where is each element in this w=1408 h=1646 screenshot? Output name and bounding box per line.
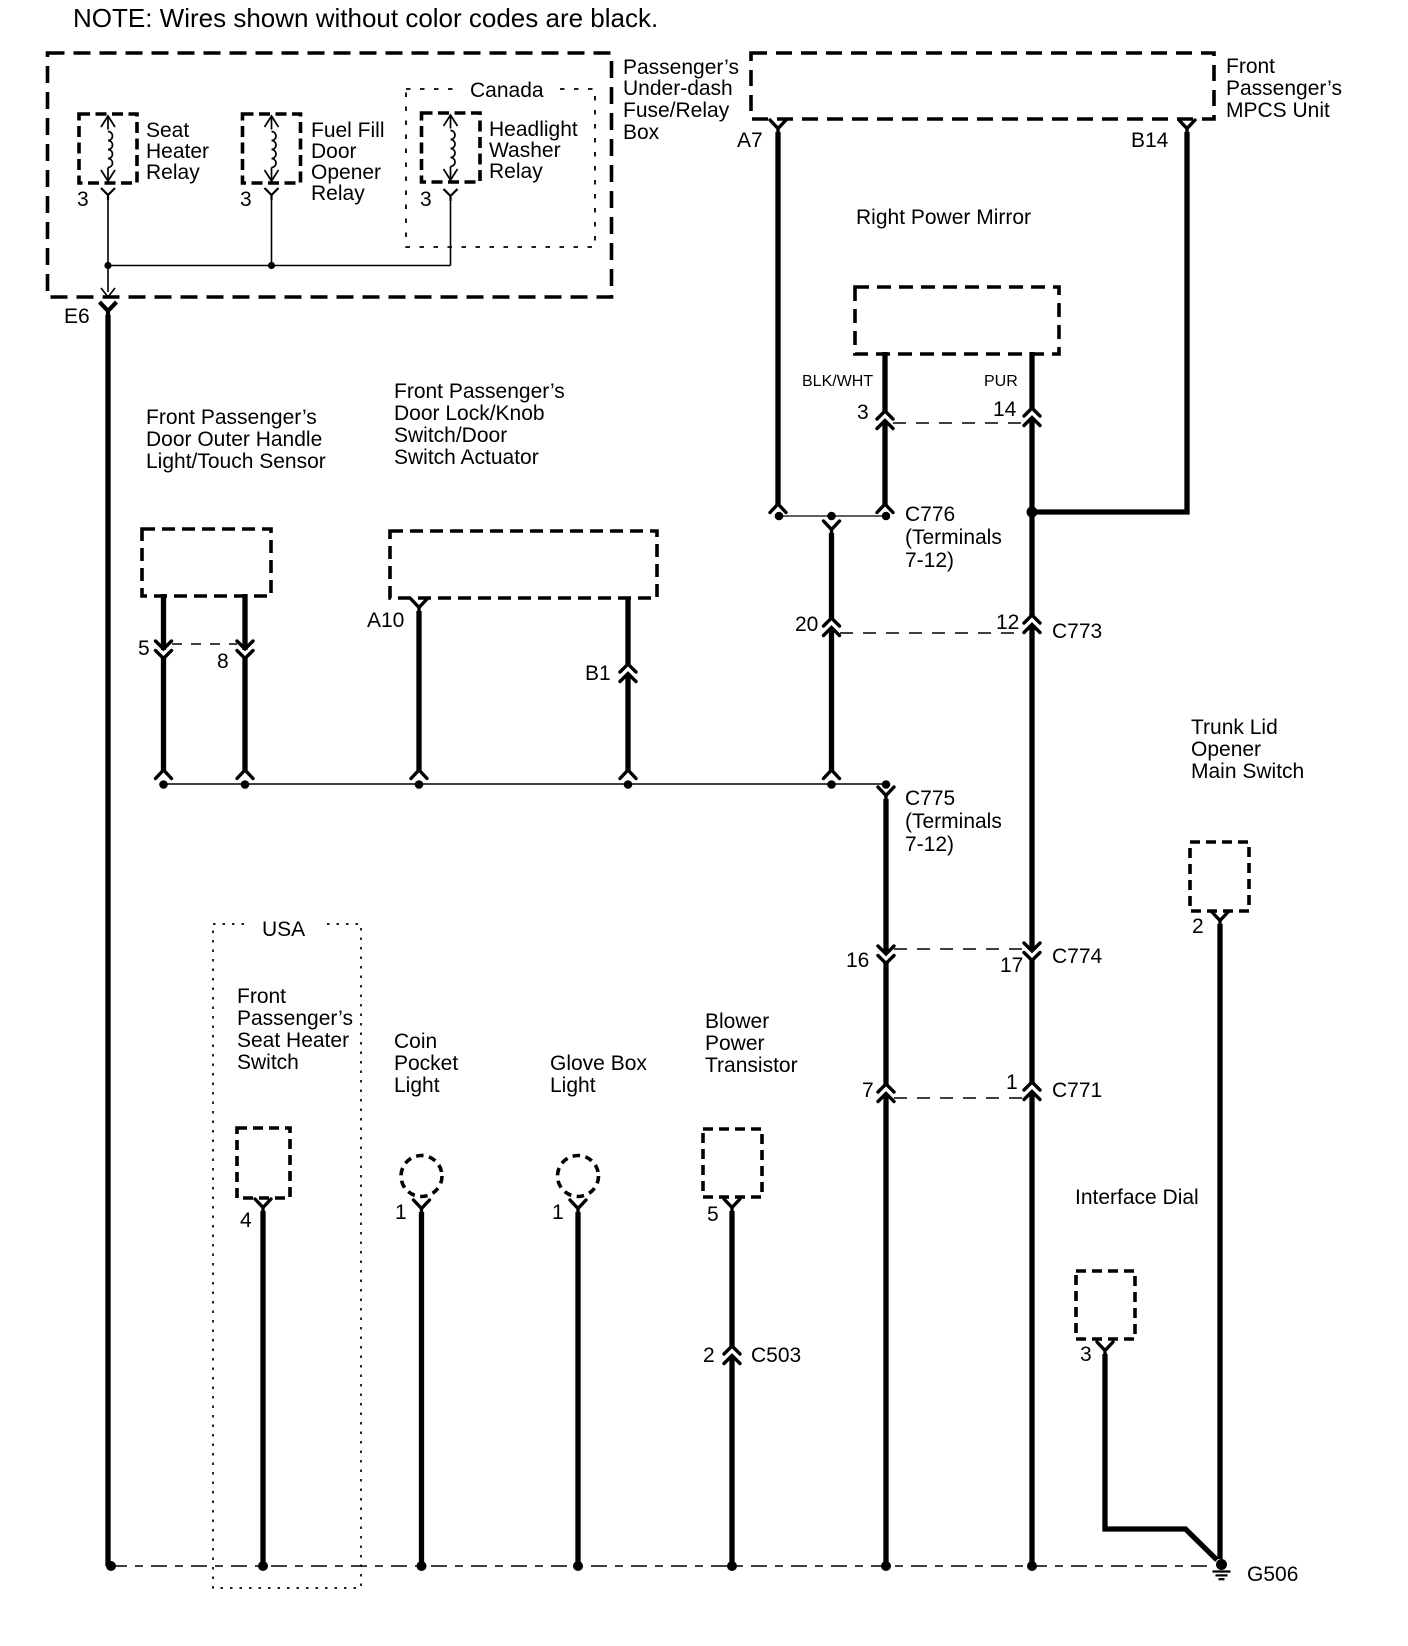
passenger's under-dash fuse/relay box <box>48 53 612 297</box>
svg-text:Opener: Opener <box>1191 738 1261 761</box>
svg-text:Passenger’s: Passenger’s <box>623 56 739 79</box>
junction coin pocket light wire <box>417 1561 427 1571</box>
junction C775 wire <box>881 1561 891 1571</box>
svg-text:Main Switch: Main Switch <box>1191 760 1304 783</box>
svg-text:1: 1 <box>1006 1071 1018 1094</box>
wire C773 pin20 down to C775 joint <box>829 628 834 772</box>
svg-text:Light/Touch Sensor: Light/Touch Sensor <box>146 450 326 473</box>
wire trunk switch to ground <box>1217 924 1222 1559</box>
ground bus wire <box>111 1565 1209 1567</box>
svg-text:Door Lock/Knob: Door Lock/Knob <box>394 402 545 425</box>
sensor left stub wire <box>161 594 166 650</box>
svg-text:Passenger’s: Passenger’s <box>237 1007 353 1030</box>
svg-text:Right Power Mirror: Right Power Mirror <box>856 206 1031 229</box>
front passenger's MPCS unit <box>751 53 1214 119</box>
sensor right stub wire <box>242 594 247 650</box>
svg-text:Pocket: Pocket <box>394 1052 458 1075</box>
dashed tie line C773 <box>840 632 1023 634</box>
wire from relay K2 pin 3 <box>271 199 273 266</box>
svg-text:Fuel Fill: Fuel Fill <box>311 119 385 142</box>
svg-text:C775: C775 <box>905 787 955 810</box>
svg-text:G506: G506 <box>1247 1563 1298 1586</box>
junction at K2 wire <box>268 262 275 269</box>
svg-text:NOTE: Wires shown without colo: NOTE: Wires shown without color codes ar… <box>73 3 658 33</box>
svg-text:3: 3 <box>857 401 869 424</box>
svg-text:Door: Door <box>311 140 357 163</box>
svg-text:Relay: Relay <box>311 182 365 205</box>
C776 joint line <box>779 515 886 517</box>
svg-text:Interface Dial: Interface Dial <box>1075 1186 1199 1209</box>
PUR wire C773 to C774 <box>1029 625 1034 952</box>
wire E6 down to ground bus <box>105 315 110 1566</box>
svg-text:Switch: Switch <box>237 1051 299 1074</box>
svg-text:A10: A10 <box>367 609 404 632</box>
svg-text:PUR: PUR <box>984 373 1018 390</box>
svg-text:Trunk Lid: Trunk Lid <box>1191 716 1278 739</box>
svg-text:Blower: Blower <box>705 1010 769 1033</box>
svg-text:Canada: Canada <box>470 79 544 102</box>
svg-text:1: 1 <box>552 1201 564 1224</box>
wire pin 8 to bus <box>242 658 247 771</box>
svg-text:3: 3 <box>1080 1343 1092 1366</box>
dashed tie line between pins 5 and 8 <box>172 643 237 645</box>
fuel fill door opener relay K2 <box>243 114 301 183</box>
svg-text:Light: Light <box>550 1074 596 1097</box>
svg-text:8: 8 <box>217 650 229 673</box>
wire C771 pin1 down to ground bus <box>1029 1092 1034 1567</box>
PUR wire pin14 to C773 <box>1029 418 1034 617</box>
dashed tie line C771 <box>894 1097 1024 1099</box>
svg-text:7-12): 7-12) <box>905 549 954 572</box>
dashed tie line C774 <box>894 948 1024 950</box>
svg-text:1: 1 <box>395 1201 407 1224</box>
svg-text:Relay: Relay <box>489 160 543 183</box>
svg-text:B14: B14 <box>1131 129 1169 152</box>
svg-text:4: 4 <box>240 1209 252 1232</box>
wire blower transistor to C503 <box>729 1211 734 1347</box>
svg-text:3: 3 <box>240 188 252 211</box>
wire C774 pin17 to C771 pin1 <box>1029 960 1034 1083</box>
wire from B14 down and left to PUR wire junction <box>1034 132 1187 512</box>
svg-text:14: 14 <box>993 398 1017 421</box>
dashed tie line between mirror pins 3 and 14 <box>893 422 1024 424</box>
seat heater relay K1 <box>79 114 137 183</box>
svg-text:Washer: Washer <box>489 139 561 162</box>
BLK/WHT wire from pin 3 down to C776 <box>882 421 887 506</box>
svg-text:Box: Box <box>623 121 660 144</box>
wire C503 to ground bus <box>729 1356 734 1567</box>
headlight washer relay K3 <box>422 113 481 182</box>
svg-text:Switch/Door: Switch/Door <box>394 424 507 447</box>
ground G506 <box>1216 1559 1227 1570</box>
svg-text:(Terminals: (Terminals <box>905 526 1002 549</box>
svg-text:C774: C774 <box>1052 945 1103 968</box>
svg-text:C771: C771 <box>1052 1079 1102 1102</box>
svg-text:5: 5 <box>707 1203 719 1226</box>
svg-text:Front: Front <box>237 985 286 1008</box>
svg-text:2: 2 <box>703 1344 715 1367</box>
door lock right stub wire <box>625 597 630 666</box>
svg-text:Opener: Opener <box>311 161 381 184</box>
svg-text:7-12): 7-12) <box>905 833 954 856</box>
svg-text:Front Passenger’s: Front Passenger’s <box>146 406 317 429</box>
mirror right stub wire PUR <box>1029 352 1034 409</box>
svg-text:Passenger’s: Passenger’s <box>1226 77 1342 100</box>
svg-text:Headlight: Headlight <box>489 118 578 141</box>
bus wire joining relay pins inside fuse box <box>108 265 451 267</box>
svg-text:Door Outer Handle: Door Outer Handle <box>146 428 322 451</box>
svg-text:B1: B1 <box>585 662 611 685</box>
svg-text:12: 12 <box>996 611 1019 634</box>
svg-text:17: 17 <box>1000 954 1023 977</box>
junction blower transistor wire <box>727 1561 737 1571</box>
svg-text:Heater: Heater <box>146 140 209 163</box>
Canada box <box>406 89 595 247</box>
wire C775 down to C774 <box>883 799 888 954</box>
svg-text:3: 3 <box>77 188 89 211</box>
USA box <box>213 924 361 1588</box>
junction of B14 wire with PUR wire <box>1027 507 1038 518</box>
connector C775 hanging from bus <box>878 787 894 802</box>
junction glove box light wire <box>573 1561 583 1571</box>
svg-text:E6: E6 <box>64 305 90 328</box>
svg-text:16: 16 <box>846 949 869 972</box>
svg-text:Coin: Coin <box>394 1030 437 1053</box>
svg-text:BLK/WHT: BLK/WHT <box>802 373 873 390</box>
wire from A7 down to C776 joint <box>775 132 780 505</box>
wire C774 pin16 to C771 pin7 <box>883 963 888 1085</box>
junction at K1 wire <box>104 262 111 269</box>
svg-text:Seat: Seat <box>146 119 189 142</box>
wire seat heater switch to ground bus <box>260 1211 265 1566</box>
svg-text:Switch Actuator: Switch Actuator <box>394 446 539 469</box>
svg-text:(Terminals: (Terminals <box>905 810 1002 833</box>
svg-text:Power: Power <box>705 1032 765 1055</box>
svg-text:5: 5 <box>138 637 150 660</box>
wire pin 5 to bus <box>161 658 166 771</box>
svg-text:Front: Front <box>1226 55 1275 78</box>
wire hanging from C776 joint <box>824 521 840 536</box>
svg-text:Seat Heater: Seat Heater <box>237 1029 349 1052</box>
mirror left stub wire BLK/WHT <box>882 352 887 412</box>
svg-text:Transistor: Transistor <box>705 1054 798 1077</box>
svg-text:3: 3 <box>420 188 432 211</box>
wire from relay K3 pin 3 <box>450 200 452 266</box>
horizontal bus to C775 <box>164 783 887 785</box>
wire from relay K1 pin 3 down to E6 <box>107 199 109 292</box>
svg-text:C503: C503 <box>751 1344 801 1367</box>
svg-text:2: 2 <box>1192 915 1204 938</box>
svg-text:Fuse/Relay: Fuse/Relay <box>623 99 730 122</box>
wire B1 to bus <box>625 674 630 772</box>
junction seat heater switch wire <box>258 1561 268 1571</box>
svg-text:C776: C776 <box>905 503 955 526</box>
svg-text:7: 7 <box>862 1079 874 1102</box>
junction E6 wire at ground bus <box>106 1561 116 1571</box>
svg-text:C773: C773 <box>1052 620 1102 643</box>
wire A10 to bus <box>416 611 421 771</box>
wire glove box light to ground bus <box>575 1212 580 1566</box>
svg-text:USA: USA <box>262 918 305 941</box>
svg-text:Glove Box: Glove Box <box>550 1052 647 1075</box>
svg-text:Light: Light <box>394 1074 440 1097</box>
junction PUR wire <box>1027 1561 1037 1571</box>
wire C771 pin7 down to ground bus <box>883 1094 888 1567</box>
svg-text:Under-dash: Under-dash <box>623 77 733 100</box>
svg-text:Front Passenger’s: Front Passenger’s <box>394 380 565 403</box>
svg-text:20: 20 <box>795 613 818 636</box>
wire coin pocket light to ground bus <box>419 1212 424 1566</box>
svg-text:Relay: Relay <box>146 161 200 184</box>
svg-text:A7: A7 <box>737 129 763 152</box>
wire interface dial to ground point <box>1105 1354 1217 1560</box>
svg-text:MPCS Unit: MPCS Unit <box>1226 99 1330 122</box>
